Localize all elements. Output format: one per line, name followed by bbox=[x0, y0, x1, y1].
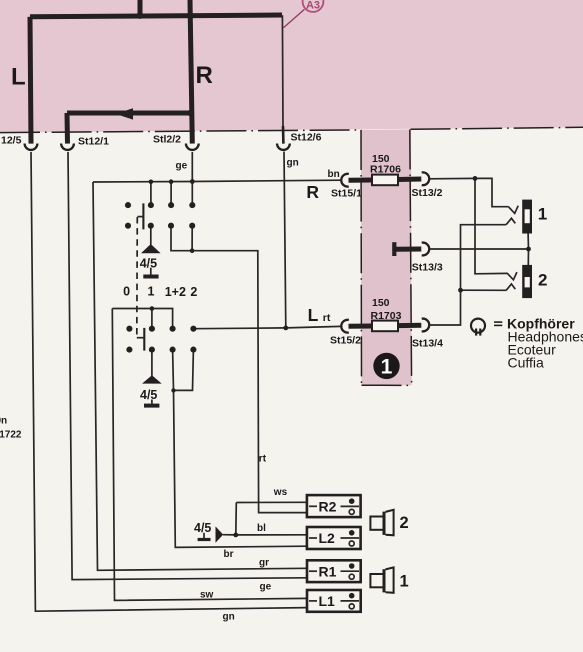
svg-text:Stl2/2: Stl2/2 bbox=[153, 134, 181, 146]
svg-text:4/5: 4/5 bbox=[140, 388, 157, 402]
svg-text:St12/6: St12/6 bbox=[291, 132, 322, 144]
svg-text:L1: L1 bbox=[319, 593, 336, 609]
svg-text:R2: R2 bbox=[319, 499, 337, 515]
svg-text:1: 1 bbox=[538, 205, 547, 224]
svg-text:4/5: 4/5 bbox=[194, 521, 211, 535]
svg-text:0n: 0n bbox=[0, 416, 7, 427]
svg-text:ws: ws bbox=[273, 487, 288, 498]
svg-text:2: 2 bbox=[538, 270, 547, 289]
svg-text:L: L bbox=[11, 64, 26, 91]
svg-text:R: R bbox=[306, 182, 319, 202]
svg-text:R1722: R1722 bbox=[0, 430, 22, 441]
svg-text:bl: bl bbox=[257, 523, 266, 534]
svg-text:R1703: R1703 bbox=[371, 310, 402, 322]
svg-text:ge: ge bbox=[176, 160, 188, 171]
svg-text:Cuffia: Cuffia bbox=[508, 354, 545, 370]
svg-text:St15/1: St15/1 bbox=[331, 188, 362, 200]
svg-text:2: 2 bbox=[190, 285, 197, 299]
svg-text:St12/1: St12/1 bbox=[78, 136, 109, 148]
svg-text:gr: gr bbox=[259, 557, 269, 568]
svg-text:1: 1 bbox=[148, 285, 155, 299]
svg-text:0: 0 bbox=[123, 285, 130, 299]
svg-text:sw: sw bbox=[200, 590, 214, 601]
svg-text:L: L bbox=[308, 305, 319, 325]
svg-text:R1706: R1706 bbox=[370, 163, 401, 175]
svg-text:ge: ge bbox=[260, 582, 272, 593]
svg-text:rt: rt bbox=[259, 453, 267, 464]
svg-text:2: 2 bbox=[400, 514, 409, 532]
svg-text:bn: bn bbox=[328, 169, 340, 180]
svg-text:1: 1 bbox=[400, 573, 409, 591]
svg-text:rt: rt bbox=[323, 312, 331, 324]
svg-text:St13/4: St13/4 bbox=[412, 337, 443, 349]
svg-text:br: br bbox=[224, 549, 234, 560]
svg-text:A3: A3 bbox=[306, 0, 320, 11]
svg-text:L2: L2 bbox=[319, 530, 336, 546]
svg-text:R: R bbox=[196, 62, 213, 89]
svg-text:St13/2: St13/2 bbox=[412, 187, 443, 199]
svg-text:12/5: 12/5 bbox=[1, 135, 22, 147]
svg-text:gn: gn bbox=[287, 158, 299, 169]
svg-text:R1: R1 bbox=[319, 563, 337, 579]
svg-text:St13/3: St13/3 bbox=[412, 262, 443, 274]
svg-text:gn: gn bbox=[223, 611, 235, 622]
svg-text:4/5: 4/5 bbox=[140, 257, 157, 271]
svg-text:1: 1 bbox=[381, 355, 393, 378]
svg-text:150: 150 bbox=[372, 297, 390, 309]
svg-text:St15/2: St15/2 bbox=[330, 335, 361, 347]
svg-text:1+2: 1+2 bbox=[165, 285, 186, 299]
